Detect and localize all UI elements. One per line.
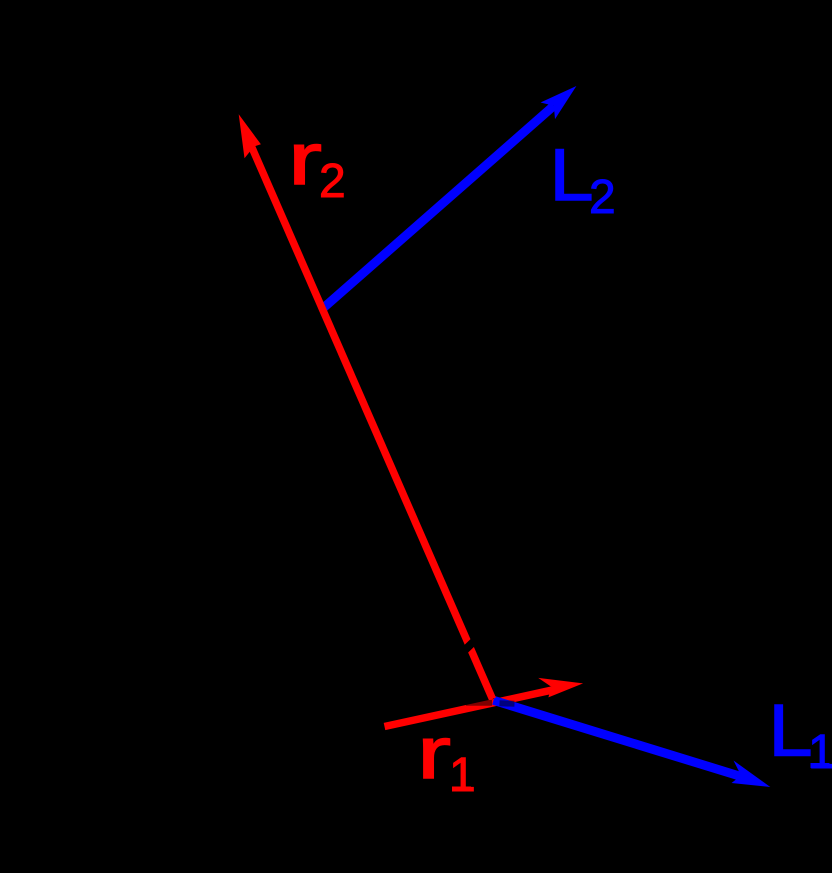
svg-text:2: 2 <box>589 171 616 224</box>
svg-text:2: 2 <box>319 155 346 208</box>
svg-text:L: L <box>550 135 594 216</box>
vector L1 (blue angular momentum at position 1) <box>494 700 771 787</box>
svg-text:L: L <box>769 691 813 772</box>
vector L2 (blue angular momentum at position 2) <box>321 86 576 310</box>
svg-text:r: r <box>288 119 322 200</box>
svg-text:1: 1 <box>808 726 832 779</box>
svg-text:1: 1 <box>449 749 476 802</box>
hidden black trajectory (translucent, shades junction) <box>466 700 492 706</box>
vector r2 (long red position vector) <box>239 114 493 699</box>
svg-text:r: r <box>417 713 451 794</box>
hidden black trajectory crossing (gap in r2) <box>452 637 479 663</box>
hidden black trajectory (translucent, over L1 start) <box>500 700 515 707</box>
vector r1 (red position vector, lower) <box>385 678 584 727</box>
